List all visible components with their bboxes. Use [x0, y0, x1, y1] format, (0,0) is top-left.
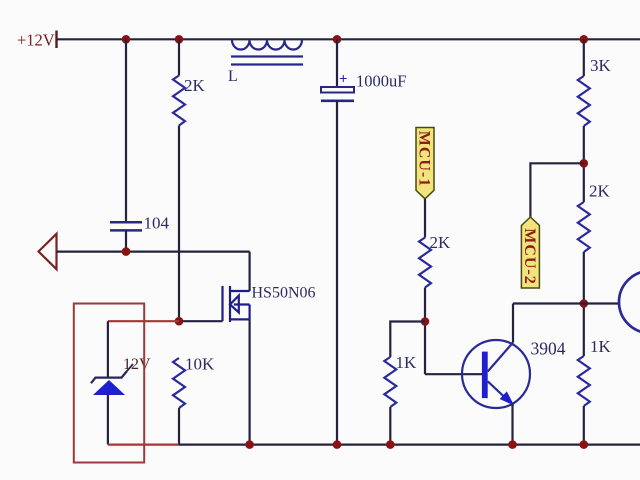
svg-text:1K: 1K: [396, 353, 418, 372]
svg-text:1000uF: 1000uF: [356, 72, 406, 91]
wire zener top vertical: [107, 321, 109, 377]
wire base of transistor: [425, 373, 482, 375]
junction x=126 y=251.6: [122, 247, 131, 256]
svg-text:MCU-1: MCU-1: [416, 131, 433, 188]
junction x=584 y=163: [580, 159, 589, 168]
svg-text:+: +: [339, 72, 348, 88]
wire resistor 2K right to node y=303.5: [583, 252, 585, 356]
wire resistor 3K to node y=163: [583, 126, 585, 202]
junction bottom rail x=584: [580, 440, 589, 449]
svg-text:1K: 1K: [590, 337, 612, 356]
wire red net bottom segment: [108, 444, 179, 446]
wire horizontal y=251.6 to MOSFET drain: [57, 251, 250, 253]
junction bottom rail x=337: [333, 440, 342, 449]
svg-text:MCU-2: MCU-2: [521, 228, 538, 285]
transistor Q 3904: [462, 340, 530, 408]
wire resistor 1K right to bottom rail: [583, 406, 585, 445]
junction bottom rail x=249.6: [245, 440, 254, 449]
resistor 2K (middle): [419, 238, 431, 288]
power port +12V bar: [55, 31, 57, 49]
junction x=584 y=303.5: [580, 299, 589, 308]
box highlight red rectangle: [74, 304, 144, 463]
resistor 2K (upper left): [173, 76, 185, 126]
svg-text:2K: 2K: [184, 76, 206, 95]
wire bottom rail: [179, 444, 640, 446]
svg-text:2K: 2K: [589, 182, 611, 201]
wire emitter down: [511, 405, 513, 445]
junction top rail x=126: [122, 35, 131, 44]
wire collector up: [512, 304, 514, 343]
wire resistor 2K mid to base node: [424, 288, 426, 375]
resistor 3K: [578, 76, 590, 126]
svg-text:3K: 3K: [590, 56, 612, 75]
svg-text:2K: 2K: [430, 233, 452, 252]
capacitor C 104: [110, 222, 142, 230]
connector triangle (left port): [39, 234, 57, 269]
junction bottom rail x=390: [386, 440, 395, 449]
MOSFET Q HS50N06: [223, 286, 250, 322]
svg-text:+12V: +12V: [17, 31, 55, 50]
wire red net horizontal y=321: [108, 320, 179, 322]
junction x=425 y=321.5: [421, 317, 430, 326]
resistor 1K (left): [384, 357, 396, 407]
wire x=584 top rail to resistor 3K: [583, 39, 585, 76]
junction top rail x=337: [333, 35, 342, 44]
wire zener bottom vertical: [107, 395, 109, 445]
wire x=126 down to capacitor 104: [125, 39, 127, 222]
svg-text:HS50N06: HS50N06: [252, 285, 316, 302]
inductor L: [231, 40, 303, 65]
wire source down to bottom rail: [249, 319, 251, 444]
circle component at right edge: [619, 271, 640, 333]
wire x=179 resistor 2K to gate node: [178, 126, 180, 322]
resistor 1K (right): [578, 356, 590, 406]
capacitor C 1000uF: [321, 39, 354, 444]
wire MCU-1 to resistor 2K mid: [424, 199, 426, 238]
svg-text:3904: 3904: [531, 339, 566, 359]
wire x=179 top rail to resistor 2K: [178, 39, 180, 75]
net label MCU-2 tag: [521, 217, 540, 288]
junction bottom rail x=512.5: [508, 440, 517, 449]
resistor 2K (right): [578, 202, 590, 252]
junction top rail x=584: [580, 35, 589, 44]
svg-text:10K: 10K: [185, 355, 215, 374]
wire node to resistor 1K left: [390, 322, 425, 358]
wire resistor 1K left to bottom rail: [389, 407, 391, 445]
junction top rail x=179: [175, 35, 184, 44]
svg-text:L: L: [228, 68, 238, 85]
junction gate node x=179 y=321: [175, 317, 184, 326]
wire node y=163 to MCU-2 stub: [530, 163, 583, 217]
wire capacitor 104 to node row: [125, 230, 127, 251]
svg-text:104: 104: [144, 214, 170, 233]
wire drain up: [249, 252, 251, 291]
wire collector node to circle: [513, 302, 619, 304]
net label MCU-1 tag: [416, 128, 435, 199]
wire gate to junction: [179, 320, 223, 322]
svg-text:12V: 12V: [123, 356, 151, 373]
zener diode D 12V: [91, 364, 133, 395]
wire top +12V rail: [57, 38, 640, 40]
resistor 10K: [173, 358, 185, 445]
